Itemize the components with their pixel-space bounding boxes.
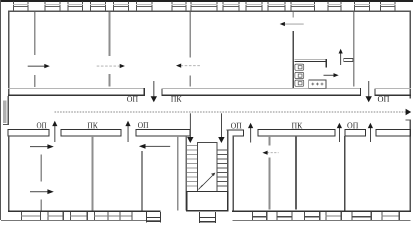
bottom exterior wall left segment [8,210,161,212]
corridor door down arrow right [366,81,372,102]
bottom right room arrow left dashed [262,151,278,155]
label OP top right [378,96,383,102]
top window pane dark lines [13,6,396,7]
stairwell right wall [227,130,229,212]
sink cross 3 [321,83,324,86]
stairwell down arrow 2 [218,113,224,143]
top window mid lines light [13,3,396,6]
wall x296 [295,136,297,209]
bar F [376,130,411,137]
wall x344.5 [344,136,346,211]
left exit door leaf grey [3,101,6,124]
interior wall W4 x353.5 [353,12,355,87]
bar segment 2 top light line [162,87,362,90]
stair bottom landing [187,192,228,211]
stairwell down arrow 1 [187,113,193,143]
sink cross 1 [311,83,314,86]
corridor up arrow 4 [337,123,342,142]
wall x269.5 lower [269,158,271,210]
bottom window light mid lines [21,215,399,216]
bar segment 1 top light line [8,87,145,90]
toilet bar T2 [344,58,353,61]
bottom room arrow left x146 [139,144,170,149]
bottom window dark pane lines [252,216,371,218]
label OP bottom 2 [138,122,143,128]
wall x41 mid segment [40,155,42,182]
label PK bottom 2 [292,123,297,129]
bar segment 2 end cap [360,88,361,96]
bar A [8,130,49,137]
bar segment 3 start cap [374,88,375,96]
porch 2 below stair landing [199,212,216,223]
top room arrow 3 dashed left [176,64,201,68]
interior wall W2 x109.5 upper [109,12,111,56]
bar segment 2 start cap [162,88,163,96]
bar segment 2 bottom dark line [162,94,362,95]
right wall lip at exit [406,120,412,121]
corridor top wall bars [8,88,411,96]
bar segment 1 bottom dark line [8,94,145,95]
corridor long arrow dashed [55,109,412,116]
label OP bottom 3 vestibule [231,123,236,129]
label OP top left [127,96,132,102]
toilet 3 [295,80,304,86]
labels [37,96,389,128]
top room arrow 1 solid right [28,64,50,68]
interior wall W1 x34.5 upper [34,12,36,55]
bottom-left room arrow 2 solid right [30,189,54,194]
toilet up arrow [339,49,343,65]
porch 1 left of stair [146,212,161,223]
corridor door down arrow left [151,81,157,102]
stair stringer box [198,143,218,192]
wall x142 [141,151,143,211]
stair vestibule right jamb [243,130,244,137]
bottom window band [1,212,411,223]
left exterior wall upper [8,10,9,96]
wall x92 [92,136,94,211]
stair vestibule top wall [227,130,244,131]
toilet bar T1 [295,59,327,68]
bar segment 3 top light line [374,87,411,90]
toilet right arrow [324,73,339,77]
building top exterior wall [8,10,411,12]
toilet 1 [295,64,304,70]
label OP bottom 1 [37,123,42,129]
stairwell left wall [185,136,187,211]
bar E under OP label [345,130,366,137]
corridor left wall piece [8,96,10,125]
corridor up arrow 2 [125,121,130,142]
interior wall W3 x190 stub [189,75,191,86]
bar B [61,130,121,137]
right exterior wall upper [410,10,411,98]
interior wall W3 x190 upper [189,12,191,58]
bar D [258,130,335,137]
stair vestibule lower lip [233,136,244,137]
toilet block [295,58,354,88]
corridor up arrow 5 [368,123,373,142]
toilet room left wall main [292,31,294,89]
bottom exterior wall right segment [232,210,411,212]
top window band ticks [13,2,396,11]
corridor up arrow 3 vestibule [248,123,253,143]
bottom band ticks [21,212,400,220]
toilet room left wall stub top [292,12,294,17]
label OP bottom 4 [347,123,352,129]
stair steps right flight [217,150,227,186]
wall x269.5 stub top [269,136,271,145]
wall x177.5 [177,136,179,211]
left exit door sill tick [3,124,9,125]
top room arrow 2 dashed right [97,64,125,68]
interior wall W1 x34.5 stub [34,75,36,87]
sink counter [309,80,326,88]
frame left line [0,0,1,220]
bar C [136,130,190,137]
toilet top arrow left [280,22,304,26]
toilet 2 [295,72,304,78]
stair steps left flight [187,146,198,187]
frame top line [0,0,413,2]
right exterior wall lower [410,120,411,212]
bar segment 3 bottom dark line [374,94,411,95]
arrows [28,22,412,194]
corridor up arrow 1 [52,121,57,142]
interior wall W2 x109.5 stub [109,74,111,87]
wall x41 lower segment [40,200,42,211]
staircase group [187,143,228,211]
sink cross 2 [316,83,319,86]
label PK top [171,96,176,102]
stair diagonal arrow [199,173,216,190]
bottom band outer line right [233,220,411,221]
bottom-left room arrow 1 solid right [30,144,54,149]
bottom right section left wall [233,136,234,211]
bottom-left room left wall [8,136,9,211]
bar segment 1 end cap [144,88,145,96]
label PK bottom 1 [88,123,93,129]
bottom band outer line left [1,220,161,221]
corridor bottom bars [8,130,410,137]
